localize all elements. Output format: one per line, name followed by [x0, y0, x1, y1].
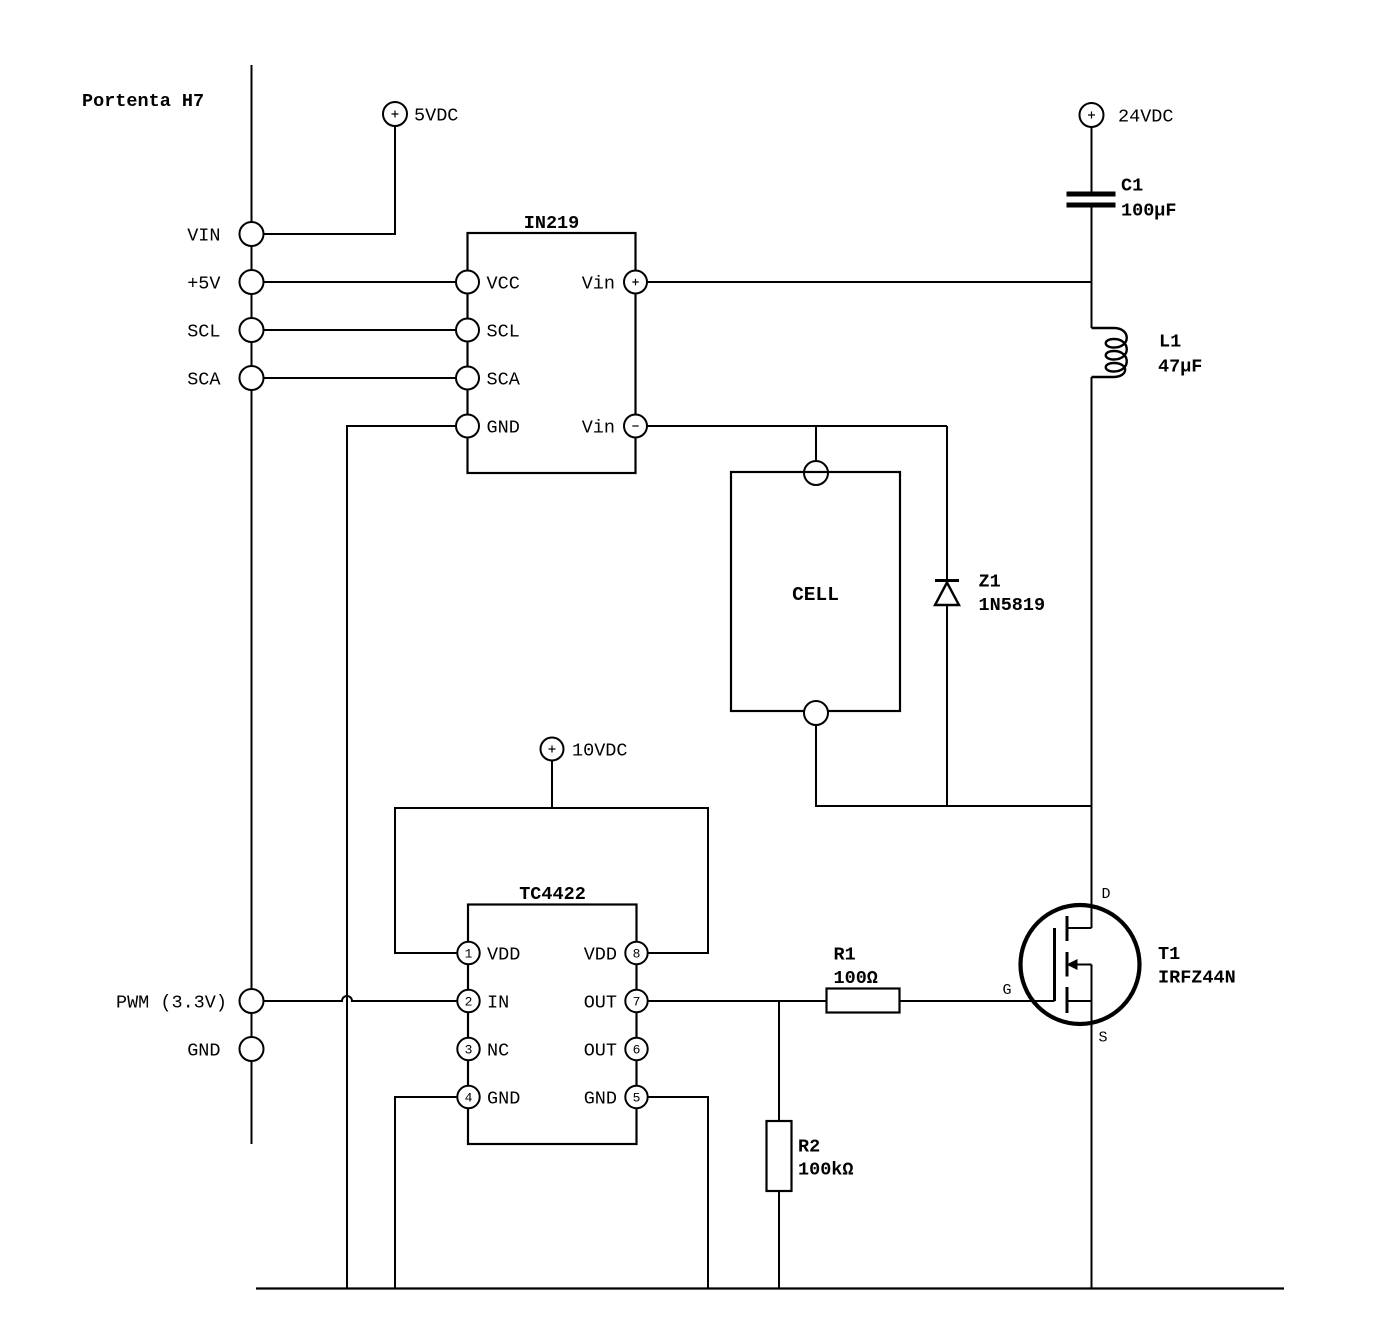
node SCA	[240, 366, 264, 390]
svg-text:GND: GND	[487, 1089, 520, 1110]
pin Vin +	[624, 271, 647, 294]
svg-text:D: D	[1102, 886, 1111, 903]
power source 24VDC	[1080, 103, 1104, 127]
wire pin5 GND to ground rail	[648, 1097, 708, 1289]
resistor R1	[827, 989, 900, 1013]
pin 5 GND	[625, 1086, 647, 1108]
svg-text:VIN: VIN	[187, 226, 220, 247]
pin 7 OUT	[625, 990, 647, 1012]
resistor R2	[767, 1121, 792, 1191]
svg-text:L1: L1	[1159, 332, 1181, 353]
svg-text:8: 8	[633, 947, 641, 962]
svg-text:Z1: Z1	[979, 571, 1001, 592]
wire PWM to IN pin2 with hop over GND wire	[264, 996, 458, 1001]
wire Vin+ to right rail	[647, 281, 1092, 283]
svg-text:T1: T1	[1158, 944, 1180, 965]
svg-text:PWM (3.3V): PWM (3.3V)	[116, 993, 227, 1014]
pin 1 VDD	[457, 942, 479, 964]
transistor T1 IRFZ44N	[1021, 905, 1140, 1024]
drain connection	[1067, 927, 1092, 929]
gate electrode	[1053, 928, 1056, 1001]
svg-text:GND: GND	[584, 1089, 617, 1110]
wire +5V to VCC	[264, 281, 457, 283]
pin 2 IN	[457, 990, 479, 1012]
wire C1 to L1 (through Vin+ junction)	[1091, 208, 1093, 329]
svg-text:SCA: SCA	[487, 370, 521, 391]
svg-text:SCL: SCL	[187, 322, 220, 343]
svg-text:1N5819: 1N5819	[979, 595, 1046, 616]
svg-text:6: 6	[633, 1043, 641, 1058]
svg-text:2: 2	[465, 995, 473, 1010]
svg-text:4: 4	[465, 1091, 473, 1106]
svg-text:47µF: 47µF	[1158, 356, 1202, 377]
capacitor C1	[1067, 192, 1116, 197]
svg-text:100µF: 100µF	[1121, 201, 1177, 222]
wire CELL bottom to rail	[816, 725, 1092, 806]
inductor L1	[1092, 328, 1127, 377]
wire VIN to 5VDC	[264, 126, 396, 234]
svg-text:+5V: +5V	[187, 274, 220, 295]
pin SCA	[456, 367, 479, 390]
svg-text:S: S	[1099, 1030, 1108, 1047]
wire L1 to drain (right rail)	[1091, 377, 1093, 928]
pin VCC	[456, 271, 479, 294]
wire SCL to SCL	[264, 329, 457, 331]
pin Vin -	[624, 415, 647, 438]
svg-text:Vin: Vin	[582, 418, 615, 439]
svg-text:100Ω: 100Ω	[834, 968, 878, 989]
svg-text:VCC: VCC	[487, 274, 520, 295]
svg-text:IN: IN	[487, 993, 509, 1014]
node SCL	[240, 318, 264, 342]
node GND	[240, 1037, 264, 1061]
svg-text:10VDC: 10VDC	[572, 741, 628, 762]
node CELL bottom terminal	[804, 701, 828, 725]
svg-text:IN219: IN219	[524, 213, 580, 234]
node VIN	[240, 222, 264, 246]
pin 3 NC	[457, 1038, 479, 1060]
svg-text:OUT: OUT	[584, 1041, 617, 1062]
Portenta H7 bus wire (left vertical)	[251, 65, 253, 1144]
wire pin4 GND to ground rail	[395, 1097, 457, 1289]
body diode arrow	[1076, 964, 1092, 966]
node CELL top terminal	[804, 461, 828, 485]
pin 6 OUT	[625, 1038, 647, 1060]
svg-text:R1: R1	[834, 945, 856, 966]
wire Vin- to CELL and Z1	[647, 425, 947, 427]
channel segments	[1066, 916, 1069, 941]
svg-text:G: G	[1003, 982, 1012, 999]
node +5V	[240, 270, 264, 294]
svg-text:Vin: Vin	[582, 274, 615, 295]
svg-text:7: 7	[633, 995, 641, 1010]
wire pin7 OUT to R1	[648, 1000, 827, 1002]
power source 5VDC	[383, 102, 407, 126]
svg-text:5VDC: 5VDC	[414, 106, 458, 127]
wire source to ground rail	[1091, 1001, 1093, 1289]
svg-text:VDD: VDD	[487, 945, 520, 966]
IC U1 IN219 box	[468, 233, 636, 473]
wire VDD supply box to pins 1 and 8	[395, 808, 708, 953]
wire R2 to ground rail	[778, 1191, 780, 1289]
svg-text:C1: C1	[1121, 176, 1143, 197]
pin GND	[456, 415, 479, 438]
node PWM (3.3V)	[240, 989, 264, 1013]
svg-text:GND: GND	[487, 418, 520, 439]
pin 4 GND	[457, 1086, 479, 1108]
pin SCL	[456, 319, 479, 342]
svg-text:SCL: SCL	[487, 322, 520, 343]
wire IN219 GND down to ground rail	[347, 426, 456, 1289]
source connection	[1067, 1000, 1092, 1002]
svg-text:TC4422: TC4422	[519, 884, 586, 905]
svg-text:100kΩ: 100kΩ	[798, 1160, 854, 1181]
svg-text:SCA: SCA	[187, 370, 221, 391]
wire R2 branch	[778, 1001, 780, 1121]
IC U2 TC4422 box	[468, 905, 637, 1145]
ground rail (bottom wire)	[256, 1287, 1284, 1289]
svg-text:R2: R2	[798, 1137, 820, 1158]
wire 10VDC to VDD box	[551, 761, 553, 809]
svg-text:CELL: CELL	[792, 584, 839, 606]
wire SCA to SCA	[264, 377, 457, 379]
wire CELL top connection	[815, 426, 817, 461]
svg-text:IRFZ44N: IRFZ44N	[1158, 968, 1236, 989]
svg-text:24VDC: 24VDC	[1118, 107, 1174, 128]
wire R1 to gate	[900, 1000, 1055, 1002]
svg-text:VDD: VDD	[584, 945, 617, 966]
svg-text:NC: NC	[487, 1041, 509, 1062]
svg-text:5: 5	[633, 1091, 641, 1106]
pin 8 VDD	[625, 942, 647, 964]
svg-text:3: 3	[465, 1043, 473, 1058]
battery CELL box	[731, 472, 900, 711]
wire 24VDC to C1	[1091, 127, 1093, 192]
power source 10VDC	[541, 738, 564, 761]
svg-text:GND: GND	[187, 1041, 220, 1062]
svg-text:Portenta H7: Portenta H7	[82, 91, 204, 112]
svg-text:OUT: OUT	[584, 993, 617, 1014]
diode Z1 1N5819	[946, 426, 948, 581]
svg-text:1: 1	[465, 947, 473, 962]
